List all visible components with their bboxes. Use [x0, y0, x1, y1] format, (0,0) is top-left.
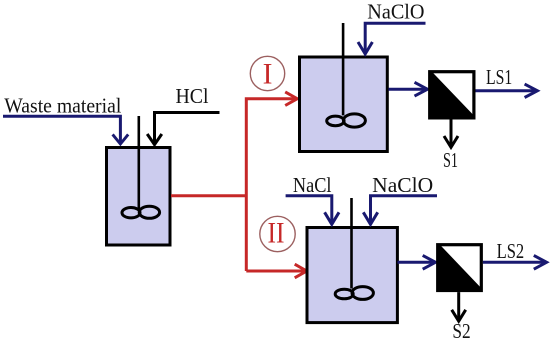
svg-text:LS2: LS2	[497, 239, 525, 263]
svg-text:II: II	[268, 218, 285, 250]
svg-text:S1: S1	[443, 148, 458, 172]
svg-text:NaCl: NaCl	[293, 173, 332, 197]
svg-text:I: I	[263, 59, 273, 91]
svg-text:NaClO: NaClO	[372, 173, 433, 197]
svg-text:S2: S2	[452, 319, 470, 343]
svg-text:LS1: LS1	[486, 65, 512, 89]
svg-text:NaClO: NaClO	[367, 0, 424, 23]
svg-text:HCl: HCl	[176, 84, 209, 108]
svg-text:Waste material: Waste material	[4, 94, 121, 118]
